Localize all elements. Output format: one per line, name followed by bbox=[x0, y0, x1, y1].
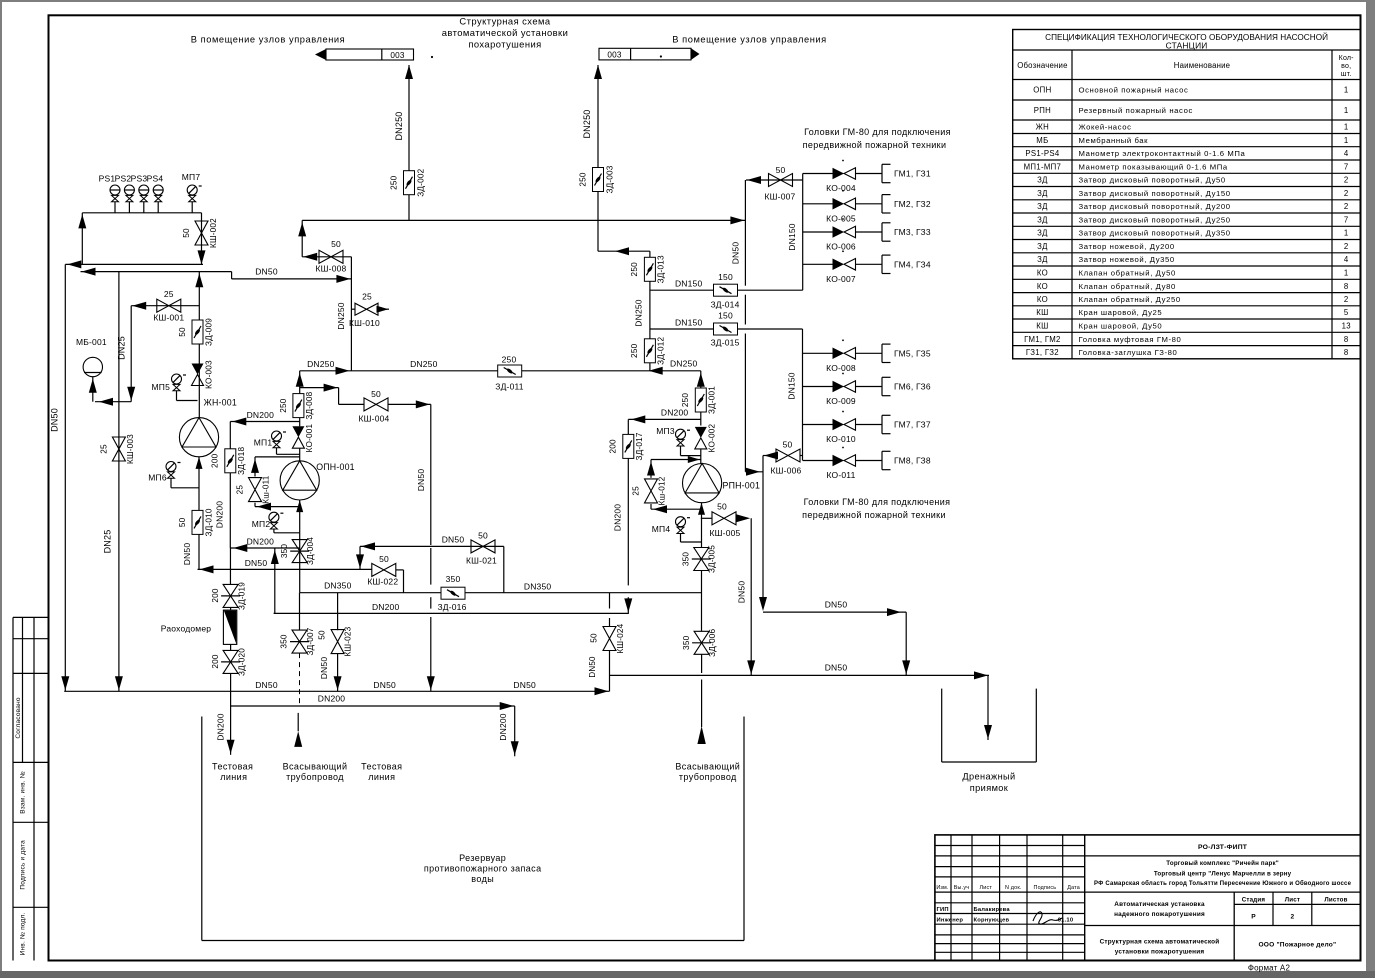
svg-text:МП4: МП4 bbox=[652, 524, 671, 534]
svg-text:8: 8 bbox=[1344, 348, 1349, 357]
jockey pump riser bbox=[195, 272, 203, 418]
svg-text:50: 50 bbox=[318, 630, 327, 640]
svg-text:8: 8 bbox=[1344, 282, 1349, 291]
svg-text:Автоматическая установка: Автоматическая установка bbox=[1114, 901, 1205, 908]
valve ZD-017 bbox=[609, 432, 645, 460]
svg-text:МП6: МП6 bbox=[148, 473, 167, 483]
svg-text:DN25: DN25 bbox=[117, 336, 127, 360]
svg-text:Наименование: Наименование bbox=[1174, 61, 1230, 70]
svg-text:КШ-024: КШ-024 bbox=[616, 623, 625, 653]
svg-text:Кш-012: Кш-012 bbox=[658, 476, 667, 505]
knife valve ZD-019 bbox=[211, 582, 247, 610]
svg-text:Корнующев: Корнующев bbox=[974, 918, 1010, 924]
svg-text:КШ-003: КШ-003 bbox=[126, 434, 135, 464]
svg-text:Р: Р bbox=[1251, 914, 1256, 921]
svg-text:Инв. № подл.: Инв. № подл. bbox=[20, 912, 27, 955]
hose head ГМ4, ГЗ4 bbox=[882, 255, 931, 273]
wire DN50 down from KSh-006 bbox=[759, 456, 910, 676]
wire MB junction line bbox=[95, 398, 131, 406]
svg-text:Всасывающий: Всасывающий bbox=[283, 762, 348, 772]
svg-text:DN250: DN250 bbox=[634, 299, 644, 327]
svg-text:ЗД-006: ЗД-006 bbox=[708, 629, 717, 657]
svg-text:50: 50 bbox=[331, 239, 341, 249]
svg-text:ГМ3, ГЗ3: ГМ3, ГЗ3 bbox=[894, 227, 931, 237]
svg-text:КО-007: КО-007 bbox=[826, 274, 856, 284]
svg-text:КШ-005: КШ-005 bbox=[710, 528, 741, 538]
wire test line DN200 drop 1 bbox=[215, 673, 234, 754]
hose head ГМ8, ГЗ8 bbox=[882, 451, 931, 469]
svg-text:Клапан обратный, Ду50: Клапан обратный, Ду50 bbox=[1079, 268, 1176, 277]
label to control room right bbox=[672, 35, 826, 45]
svg-text:КШ-008: КШ-008 bbox=[316, 264, 347, 274]
svg-text:ГИП: ГИП bbox=[937, 907, 949, 913]
svg-text:DN50: DN50 bbox=[373, 680, 396, 690]
svg-text:КШ-007: КШ-007 bbox=[765, 192, 796, 202]
reserve pump RPN riser top bbox=[697, 371, 705, 426]
svg-text:ЖН-001: ЖН-001 bbox=[204, 398, 237, 408]
svg-text:ЗД: ЗД bbox=[1037, 255, 1048, 264]
svg-text:DN250: DN250 bbox=[410, 359, 438, 369]
wire KSh-004 branch bbox=[300, 384, 365, 405]
svg-text:25: 25 bbox=[632, 486, 641, 496]
svg-text:50: 50 bbox=[478, 531, 488, 541]
drain pit bbox=[942, 689, 1037, 762]
svg-text:МП1-МП7: МП1-МП7 bbox=[1024, 162, 1062, 171]
svg-text:Манометр электроконтактный 0-1: Манометр электроконтактный 0-1.6 МПа bbox=[1079, 149, 1246, 158]
svg-text:50: 50 bbox=[182, 228, 191, 238]
svg-text:КО-001: КО-001 bbox=[305, 423, 314, 452]
svg-text:Кран шаровой, Ду50: Кран шаровой, Ду50 bbox=[1079, 321, 1163, 330]
svg-text:DN200: DN200 bbox=[498, 713, 508, 741]
wire DN200 test header bbox=[274, 602, 629, 613]
flow meter bbox=[161, 610, 237, 644]
svg-text:Затвор дисковый поворотный, Ду: Затвор дисковый поворотный, Ду200 bbox=[1079, 202, 1231, 211]
svg-text:50: 50 bbox=[783, 440, 793, 450]
gauge MP7 bbox=[182, 172, 202, 213]
valve KSh-001 bbox=[153, 289, 184, 323]
pipe DN250 riser to left flag with valve ZD-002 bbox=[394, 65, 413, 220]
svg-text:линия: линия bbox=[220, 772, 247, 782]
svg-text:КО: КО bbox=[1037, 268, 1048, 277]
svg-text:DN250: DN250 bbox=[394, 111, 404, 140]
svg-text:2: 2 bbox=[1290, 914, 1294, 921]
svg-text:DN350: DN350 bbox=[324, 581, 352, 591]
gauge PS4 bbox=[147, 174, 164, 213]
check valve КО-007 branch bbox=[803, 250, 882, 264]
svg-text:МП2: МП2 bbox=[252, 519, 271, 529]
svg-text:Мембранный бак: Мембранный бак bbox=[1079, 136, 1149, 145]
svg-text:КО-009: КО-009 bbox=[826, 396, 856, 406]
svg-text:СТАНЦИИ: СТАНЦИИ bbox=[1166, 41, 1208, 51]
svg-text:МП1: МП1 bbox=[254, 438, 273, 448]
svg-text:ЗД-019: ЗД-019 bbox=[238, 582, 247, 610]
svg-text:150: 150 bbox=[718, 272, 733, 282]
svg-text:Всасывающий: Всасывающий bbox=[675, 762, 740, 772]
svg-text:250: 250 bbox=[390, 175, 399, 190]
svg-text:Инженер: Инженер bbox=[937, 918, 964, 924]
svg-text:Резервный пожарный насос: Резервный пожарный насос bbox=[1079, 106, 1193, 115]
svg-text:13: 13 bbox=[1342, 321, 1351, 330]
valve KSh-001 branch wire bbox=[117, 302, 200, 402]
svg-text:350: 350 bbox=[682, 552, 691, 567]
svg-text:DN50: DN50 bbox=[50, 408, 60, 432]
gauge MP3 bbox=[656, 426, 701, 456]
knife valve ZD-006 bbox=[682, 629, 717, 657]
svg-text:КО-010: КО-010 bbox=[826, 434, 856, 444]
valve KSh-006 line bbox=[763, 452, 803, 460]
svg-text:шт.: шт. bbox=[1341, 71, 1352, 78]
svg-text:КО-003: КО-003 bbox=[205, 360, 214, 389]
svg-text:Манометр показывающий 0-1.6 М: Манометр показывающий 0-1.6 МПа bbox=[1079, 162, 1228, 171]
svg-text:4: 4 bbox=[1344, 255, 1349, 264]
check valve КО-006 bbox=[826, 226, 856, 251]
valve ZD-011 bbox=[495, 355, 524, 392]
svg-text:DN50: DN50 bbox=[245, 558, 268, 568]
svg-text:Дата: Дата bbox=[1067, 885, 1080, 891]
svg-text:линия: линия bbox=[368, 772, 395, 782]
valve KSh-021 bbox=[466, 531, 504, 593]
svg-text:РО-ЛЗТ-ФИПТ: РО-ЛЗТ-ФИПТ bbox=[1198, 844, 1248, 851]
wire ZD-012 riser bbox=[634, 251, 650, 371]
wire jog bbox=[231, 272, 233, 279]
svg-text:DN200: DN200 bbox=[372, 602, 400, 612]
svg-text:DN200: DN200 bbox=[215, 501, 225, 529]
svg-text:250: 250 bbox=[681, 393, 690, 408]
wire DN50 from KSh-004 down to header bbox=[416, 404, 435, 691]
jockey pump suction riser bbox=[196, 457, 203, 570]
svg-text:противопожарного запаса: противопожарного запаса bbox=[424, 864, 542, 874]
bypass KSh-011 bbox=[251, 457, 300, 511]
svg-text:50: 50 bbox=[379, 554, 389, 564]
suction pipe label 1 bbox=[283, 762, 348, 783]
svg-text:ЗД-013: ЗД-013 bbox=[657, 255, 666, 283]
check valve KO-003 bbox=[192, 360, 214, 389]
svg-text:Балакирева: Балакирева bbox=[974, 907, 1011, 913]
svg-text:ГМ1, ГЗ1: ГМ1, ГЗ1 bbox=[894, 169, 931, 179]
svg-text:DN50: DN50 bbox=[825, 600, 848, 610]
wire OPN pump inlet bbox=[299, 448, 301, 461]
reserve pump RPN-001 bbox=[683, 464, 761, 503]
svg-text:Резервуар: Резервуар bbox=[459, 853, 506, 863]
svg-text:ЗД-004: ЗД-004 bbox=[306, 537, 315, 565]
wire DN25 vertical bbox=[103, 272, 123, 692]
svg-text:DN250: DN250 bbox=[582, 109, 592, 138]
svg-text:DN350: DN350 bbox=[524, 582, 552, 592]
svg-text:50: 50 bbox=[776, 165, 786, 175]
gauge MP6 bbox=[148, 462, 199, 488]
check valve КО-007 bbox=[826, 259, 856, 284]
svg-text:КО-008: КО-008 bbox=[826, 363, 856, 373]
gauge PS3 bbox=[131, 174, 149, 213]
wire main DN350 suction line bbox=[300, 581, 702, 593]
svg-text:ГМ6, ГЗ6: ГМ6, ГЗ6 bbox=[894, 382, 931, 392]
test line label 2 bbox=[361, 762, 402, 783]
wire RPN pump inlet bbox=[700, 449, 702, 464]
svg-text:КО-004: КО-004 bbox=[826, 183, 856, 193]
wire RPN suction into reservoir bbox=[697, 655, 705, 745]
valve KSh-024 bbox=[588, 623, 625, 691]
check valve КО-004 branch bbox=[803, 160, 882, 174]
svg-text:надежного пожаротушения: надежного пожаротушения bbox=[1114, 911, 1205, 918]
flow meter line ZD-019 bbox=[229, 548, 231, 584]
gauge MP1 bbox=[254, 431, 300, 454]
svg-text:003: 003 bbox=[390, 51, 405, 60]
svg-text:350: 350 bbox=[682, 635, 691, 650]
svg-text:МБ-001: МБ-001 bbox=[76, 337, 107, 347]
svg-text:ГМ5, ГЗ5: ГМ5, ГЗ5 bbox=[894, 349, 931, 359]
svg-text:8: 8 bbox=[1344, 335, 1349, 344]
svg-text:ЗД-008: ЗД-008 bbox=[305, 391, 314, 419]
drain valve KSh-023 riser bbox=[337, 593, 339, 631]
svg-text:воды: воды bbox=[471, 874, 494, 884]
svg-text:МП7: МП7 bbox=[182, 172, 201, 182]
svg-text:PS1: PS1 bbox=[99, 174, 116, 184]
svg-text:DN200: DN200 bbox=[661, 408, 689, 418]
check valve КО-004 bbox=[826, 168, 856, 193]
svg-text:DN250: DN250 bbox=[307, 359, 335, 369]
svg-text:DN200: DN200 bbox=[247, 537, 275, 547]
svg-text:003: 003 bbox=[607, 51, 622, 60]
wire DN250 main header bbox=[300, 359, 701, 375]
svg-text:1: 1 bbox=[1344, 268, 1349, 277]
test line label 1 bbox=[212, 762, 253, 783]
svg-text:7: 7 bbox=[1344, 162, 1349, 171]
valve KSh-004 bbox=[359, 389, 431, 424]
valve ZD-016 bbox=[437, 574, 466, 612]
jockey pump ZhN-001 bbox=[179, 398, 237, 457]
svg-text:КО-002: КО-002 bbox=[708, 423, 717, 452]
valve KSh-007 line bbox=[746, 176, 803, 184]
svg-text:DN150: DN150 bbox=[787, 372, 797, 400]
svg-text:25: 25 bbox=[362, 292, 372, 302]
wire RPN suction riser bbox=[698, 503, 705, 632]
svg-text:50: 50 bbox=[717, 502, 727, 512]
svg-text:200: 200 bbox=[609, 439, 618, 454]
main pump OPN riser top bbox=[296, 371, 304, 427]
valve KSh-008 bbox=[316, 239, 347, 274]
svg-text:передвижной пожарной техники: передвижной пожарной техники bbox=[802, 510, 946, 520]
svg-text:Кш-011: Кш-011 bbox=[262, 475, 271, 504]
svg-text:МП3: МП3 bbox=[656, 426, 675, 436]
svg-text:КО-011: КО-011 bbox=[826, 470, 855, 480]
wire DN50 right vertical from top bbox=[731, 180, 764, 476]
valve KSh-022 bbox=[367, 554, 403, 593]
svg-text:DN50: DN50 bbox=[255, 680, 278, 690]
wire DN200 test header 2 bbox=[231, 694, 515, 711]
svg-text:2: 2 bbox=[1344, 242, 1349, 251]
check valve КО-005 bbox=[826, 198, 856, 223]
valve KSh-002 riser bbox=[198, 213, 206, 265]
reservoir bbox=[202, 717, 744, 941]
svg-text:7: 7 bbox=[1344, 215, 1349, 224]
svg-text:КШ-021: КШ-021 bbox=[466, 556, 497, 566]
svg-text:Формат А2: Формат А2 bbox=[1248, 964, 1291, 973]
svg-text:1: 1 bbox=[1344, 229, 1349, 238]
wire DN50 drain line to pit bbox=[610, 663, 993, 741]
svg-text:Жокей-насос: Жокей-насос bbox=[1079, 123, 1132, 132]
svg-text:2: 2 bbox=[1344, 176, 1349, 185]
knife valve ZD-005 bbox=[682, 545, 717, 573]
svg-text:ООО "Пожарное дело": ООО "Пожарное дело" bbox=[1258, 942, 1336, 949]
title block bbox=[935, 835, 1361, 973]
gauge PS2 bbox=[115, 174, 135, 213]
svg-text:350: 350 bbox=[446, 574, 461, 584]
left attachment strip bbox=[13, 617, 49, 960]
valve KSh-002 bbox=[182, 218, 218, 248]
knife valve ZD-007 bbox=[280, 627, 316, 655]
svg-text:РПН: РПН bbox=[1034, 106, 1051, 115]
svg-text:автоматической установки: автоматической установки bbox=[442, 27, 569, 38]
svg-text:Тестовая: Тестовая bbox=[361, 762, 402, 772]
svg-text:ЖН: ЖН bbox=[1036, 123, 1049, 132]
valve ZD-014 bbox=[710, 272, 739, 310]
svg-text:50: 50 bbox=[178, 517, 187, 527]
wire suction header y569 bbox=[198, 565, 372, 573]
svg-text:Затвор дисковый поворотный, Ду: Затвор дисковый поворотный, Ду350 bbox=[1079, 229, 1231, 238]
valve ZD-008 bbox=[279, 391, 314, 419]
wire DN150 manifold upper bbox=[787, 174, 803, 291]
svg-text:DN50: DN50 bbox=[737, 581, 747, 604]
wire line C DN50 bbox=[232, 267, 352, 283]
svg-text:КО: КО bbox=[1037, 295, 1048, 304]
svg-text:ЗД-001: ЗД-001 bbox=[708, 386, 717, 414]
svg-text:DN25: DN25 bbox=[103, 530, 113, 554]
svg-text:В помещение узлов управлени: В помещение узлов управления bbox=[191, 35, 345, 45]
svg-text:50: 50 bbox=[371, 389, 381, 399]
svg-text:250: 250 bbox=[630, 262, 639, 277]
check valve КО-005 branch bbox=[803, 190, 882, 204]
svg-text:350: 350 bbox=[280, 544, 289, 559]
hose head ГМ5, ГЗ5 bbox=[882, 344, 931, 362]
check valve КО-010 bbox=[826, 419, 856, 444]
wire DN150 branch 2 bbox=[650, 318, 803, 330]
wire corner to ZD-003 riser bbox=[598, 247, 650, 255]
svg-text:1: 1 bbox=[1344, 86, 1349, 95]
flag 003 left bbox=[315, 49, 433, 60]
svg-text:Основной пожарный насос: Основной пожарный насос bbox=[1079, 86, 1189, 95]
svg-text:ЗД-009: ЗД-009 bbox=[205, 318, 214, 346]
svg-text:Лист: Лист bbox=[1285, 897, 1300, 904]
check valve КО-011 branch bbox=[803, 447, 882, 461]
valve KSh-003 bbox=[100, 434, 136, 464]
valve ZD-009 bbox=[178, 318, 214, 346]
svg-text:КШ: КШ bbox=[1036, 321, 1048, 330]
svg-text:Торговый центр "Ленус Марчелли: Торговый центр "Ленус Марчелли в зерну bbox=[1154, 871, 1292, 878]
svg-text:DN50: DN50 bbox=[442, 535, 465, 545]
wire DN150 branch 1 bbox=[650, 279, 803, 291]
valve ZD-017 riser bbox=[613, 419, 633, 613]
svg-text:DN200: DN200 bbox=[215, 713, 225, 741]
svg-text:Головка муфтовая ГМ-80: Головка муфтовая ГМ-80 bbox=[1079, 335, 1182, 344]
svg-text:КО-006: КО-006 bbox=[826, 242, 856, 252]
svg-text:ЗД-020: ЗД-020 bbox=[238, 648, 247, 676]
wire OPN suction riser bbox=[296, 500, 303, 593]
svg-text:ЗД-010: ЗД-010 bbox=[205, 508, 214, 536]
drain valve KSh-024 riser bbox=[609, 593, 611, 627]
svg-text:Подпись и дата: Подпись и дата bbox=[20, 840, 27, 890]
svg-text:ЗД-018: ЗД-018 bbox=[237, 447, 246, 475]
svg-text:КШ-022: КШ-022 bbox=[367, 577, 398, 587]
svg-text:КО-005: КО-005 bbox=[826, 213, 856, 223]
valve KSh-006 bbox=[771, 440, 802, 476]
wire DN250 vertical riser x351 bbox=[336, 257, 351, 371]
svg-text:DN50: DN50 bbox=[825, 663, 848, 673]
wire DN50 from KSh-005 down bbox=[737, 518, 756, 675]
svg-text:2: 2 bbox=[1344, 202, 1349, 211]
svg-text:DN150: DN150 bbox=[675, 279, 703, 289]
svg-text:PS4: PS4 bbox=[147, 174, 164, 184]
main pump OPN-001 bbox=[280, 461, 355, 500]
svg-text:50: 50 bbox=[590, 633, 599, 643]
svg-text:5: 5 bbox=[1344, 308, 1349, 317]
valve ZD-001 bbox=[681, 386, 717, 414]
svg-text:ГМ2, ГЗ2: ГМ2, ГЗ2 bbox=[894, 199, 931, 209]
svg-text:25: 25 bbox=[100, 444, 109, 454]
svg-text:4: 4 bbox=[1344, 149, 1349, 158]
svg-text:Кран шаровой, Ду25: Кран шаровой, Ду25 bbox=[1079, 308, 1163, 317]
knife valve ZD-020 bbox=[211, 608, 247, 677]
wire line A bbox=[65, 260, 203, 268]
svg-text:Подпись: Подпись bbox=[1034, 885, 1057, 891]
svg-text:В помещение узлов управлени: В помещение узлов управления bbox=[672, 35, 826, 45]
svg-text:Клапан обратный, Ду250: Клапан обратный, Ду250 bbox=[1079, 295, 1181, 304]
svg-text:Головка-заглушка ГЗ-80: Головка-заглушка ГЗ-80 bbox=[1079, 348, 1178, 357]
check valve КО-011 bbox=[826, 455, 855, 480]
svg-text:200: 200 bbox=[211, 588, 220, 603]
svg-text:N док.: N док. bbox=[1005, 885, 1022, 891]
svg-text:КШ-010: КШ-010 bbox=[349, 318, 380, 328]
svg-text:DN200: DN200 bbox=[613, 504, 623, 532]
valve KSh-005 bbox=[710, 502, 751, 539]
svg-text:DN150: DN150 bbox=[787, 223, 797, 251]
svg-text:ЗД-017: ЗД-017 bbox=[635, 432, 644, 460]
svg-text:Листов: Листов bbox=[1324, 897, 1347, 904]
svg-text:Стадия: Стадия bbox=[1242, 897, 1266, 904]
svg-text:Кол-: Кол- bbox=[1339, 55, 1355, 62]
drain pit label bbox=[962, 772, 1015, 794]
svg-text:Согласовано: Согласовано bbox=[15, 697, 22, 738]
gauge MP5 bbox=[152, 374, 198, 401]
bypass KSh-012 bbox=[647, 456, 701, 513]
valve ZD-015 bbox=[710, 311, 739, 348]
valve KSh-005 branch bbox=[701, 517, 713, 519]
svg-text:150: 150 bbox=[718, 311, 733, 321]
svg-text:ЗД: ЗД bbox=[1037, 229, 1048, 238]
wire main DN50 drain header bbox=[64, 680, 609, 695]
svg-text:РПН-001: РПН-001 bbox=[723, 481, 761, 491]
svg-text:DN250: DN250 bbox=[670, 359, 698, 369]
wire KSh-008 branch bbox=[302, 253, 351, 261]
svg-text:КШ-002: КШ-002 bbox=[209, 218, 218, 248]
valve KSh-010 bbox=[349, 292, 380, 329]
suction pipe ZD-007 riser bbox=[299, 593, 301, 631]
svg-text:Изм.: Изм. bbox=[936, 885, 948, 891]
svg-text:похаротушения: похаротушения bbox=[468, 39, 541, 50]
wire DN50 left main vertical bbox=[50, 264, 70, 691]
gauge PS1 bbox=[99, 174, 120, 213]
specification table bbox=[1013, 30, 1361, 359]
svg-text:ЗД-012: ЗД-012 bbox=[657, 337, 666, 365]
valve ZD-012 bbox=[630, 337, 666, 365]
wire DN200 drop 2 bbox=[498, 706, 519, 756]
svg-text:DN50: DN50 bbox=[588, 656, 597, 678]
flag 003 right bbox=[599, 48, 700, 60]
svg-text:DN250: DN250 bbox=[336, 302, 346, 330]
valve KSh-010 branch bbox=[351, 306, 389, 313]
svg-text:Обозначение: Обозначение bbox=[1017, 61, 1067, 70]
svg-text:Тестовая: Тестовая bbox=[212, 762, 253, 772]
hose head ГМ2, ГЗ2 bbox=[882, 195, 931, 213]
